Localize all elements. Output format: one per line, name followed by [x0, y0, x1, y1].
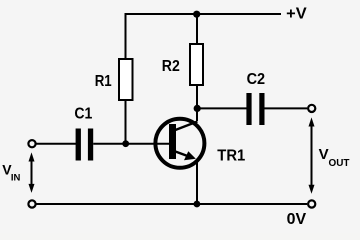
terminal bottom left: [28, 200, 35, 207]
wire R2 branch from +V rail down to R2: [196, 14, 198, 45]
svg-text:+V: +V: [286, 6, 307, 23]
arrow Vout double-headed: [309, 117, 315, 193]
svg-text:C2: C2: [247, 71, 266, 88]
wire R2 bottom to collector: [196, 85, 198, 121]
wire 0V bottom rail: [37, 203, 308, 205]
wire C1 to transistor base: [93, 143, 169, 145]
resistor R1: [119, 59, 133, 100]
svg-text:R2: R2: [162, 58, 180, 75]
transistor TR1: [155, 119, 204, 168]
wire C2 to output terminal: [265, 107, 308, 109]
capacitor C1: [76, 129, 94, 161]
svg-text:C1: C1: [74, 106, 92, 123]
wire top supply rail: [126, 13, 282, 15]
junction dot +V rail / R2: [193, 11, 200, 18]
svg-text:IN: IN: [11, 173, 21, 184]
terminal output: [308, 105, 315, 112]
terminal input: [28, 140, 35, 147]
terminal bottom right: [308, 200, 315, 207]
svg-text:V: V: [319, 146, 329, 163]
wire collector tap to C2: [197, 107, 247, 109]
junction dot collector / C2 tap: [194, 105, 201, 112]
label Vin: [2, 162, 20, 184]
arrow Vin double-headed: [29, 152, 35, 193]
wire emitter to 0V rail: [196, 162, 198, 204]
wire R1 bottom to base node: [125, 100, 127, 144]
svg-text:R1: R1: [95, 73, 112, 90]
resistor R2: [190, 44, 203, 85]
junction dot R1 / base wire: [122, 140, 129, 147]
svg-text:OUT: OUT: [329, 157, 351, 169]
capacitor C2: [246, 93, 264, 125]
junction dot emitter / 0V rail: [194, 201, 201, 208]
wire R1 branch from +V rail down to R1: [125, 13, 127, 60]
svg-text:TR1: TR1: [217, 147, 245, 164]
label Vout: [319, 146, 350, 169]
wire input terminal to C1: [37, 143, 77, 145]
svg-text:0V: 0V: [287, 211, 307, 228]
